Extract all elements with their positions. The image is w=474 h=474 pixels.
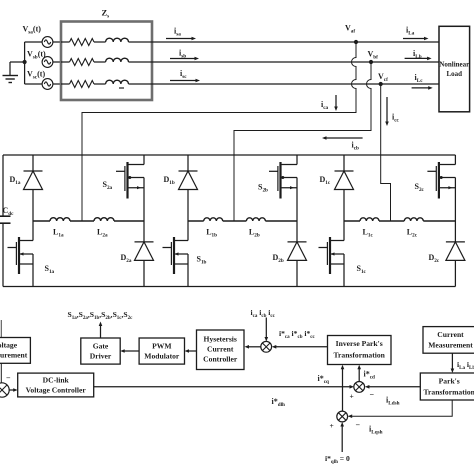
svg-text:Transformation: Transformation bbox=[424, 388, 474, 397]
transistor S_1a bbox=[32, 221, 34, 241]
transistor S_2c bbox=[454, 155, 456, 165]
source V_sa(t) bbox=[25, 41, 42, 43]
svg-text:ica: ica bbox=[321, 100, 329, 111]
svg-text:S2c: S2c bbox=[415, 182, 425, 193]
wire parks d output to summer bbox=[368, 386, 420, 388]
wire phase b bus bbox=[152, 61, 439, 63]
svg-text:L2b: L2b bbox=[249, 228, 260, 239]
inductor L_1a bbox=[33, 220, 50, 222]
svg-text:Measurement: Measurement bbox=[428, 341, 473, 350]
wire hysteresis to PWM bbox=[188, 350, 197, 352]
svg-text:Vaf: Vaf bbox=[345, 24, 355, 35]
inductor L_1b bbox=[188, 220, 204, 222]
svg-text:Park's: Park's bbox=[439, 377, 460, 386]
wire DC bottom rail bbox=[3, 286, 455, 288]
svg-text:L1c: L1c bbox=[363, 228, 374, 239]
resistor Zs phase b bbox=[70, 59, 95, 66]
svg-text:i*cd: i*cd bbox=[364, 370, 376, 381]
summer q-axis reference bbox=[337, 411, 348, 422]
current measurement block bbox=[423, 327, 474, 354]
wire source common vertical bbox=[24, 42, 26, 84]
svg-text:Vsc(t): Vsc(t) bbox=[27, 70, 45, 81]
svg-text:Current: Current bbox=[437, 330, 464, 339]
summer d-axis reference bbox=[354, 382, 365, 393]
svg-text:iLqsh: iLqsh bbox=[369, 425, 383, 436]
wire q reference zero input bbox=[341, 426, 343, 453]
svg-text:ica icb icc: ica icb icc bbox=[251, 308, 276, 319]
wire phase c injection bbox=[381, 84, 391, 221]
voltage measurement block bbox=[0, 338, 30, 364]
svg-text:isb: isb bbox=[179, 49, 186, 60]
inductor Zs phase a bbox=[94, 41, 106, 43]
svg-text:D2b: D2b bbox=[273, 253, 284, 264]
transistor S_2a bbox=[143, 155, 145, 165]
diode D_2a bbox=[143, 221, 145, 242]
svg-text:Current: Current bbox=[207, 345, 234, 354]
svg-text:i*cq: i*cq bbox=[318, 374, 330, 385]
summer current error bbox=[261, 341, 272, 352]
svg-text:iLa: iLa bbox=[406, 26, 415, 37]
svg-text:D1c: D1c bbox=[320, 175, 331, 186]
svg-text:−: − bbox=[370, 390, 375, 399]
inductor L_1c bbox=[344, 220, 360, 222]
polarity mark under Zs row c bbox=[119, 87, 124, 89]
svg-text:Hysetersis: Hysetersis bbox=[204, 335, 237, 344]
svg-text:L1a: L1a bbox=[53, 228, 64, 239]
diode D_1b bbox=[187, 155, 189, 171]
node common source neutral bbox=[23, 60, 27, 64]
wire measured currents to summer bbox=[265, 318, 267, 339]
svg-text:S1c: S1c bbox=[357, 264, 367, 275]
svg-text:−: − bbox=[6, 374, 11, 383]
source V_sb(t) bbox=[42, 57, 53, 68]
wire DC-link controller output i*_dlh bbox=[94, 386, 351, 388]
svg-text:Voltage: Voltage bbox=[0, 341, 18, 350]
svg-text:icc: icc bbox=[392, 113, 400, 124]
wire summer to hysteresis controller bbox=[248, 346, 261, 348]
ground bbox=[10, 61, 25, 63]
svg-text:S1a,S2a,S1b,S2b,S1c,S2c: S1a,S2a,S1b,S2b,S1c,S2c bbox=[68, 310, 134, 321]
wire q summer to inverse park i*_cq bbox=[342, 368, 344, 411]
svg-text:S1a: S1a bbox=[45, 264, 55, 275]
svg-text:Vsa(t): Vsa(t) bbox=[23, 25, 42, 36]
wire Zs row b left bbox=[61, 61, 70, 63]
svg-text:D2a: D2a bbox=[121, 253, 132, 264]
svg-text:PWM: PWM bbox=[152, 342, 171, 351]
wire summer to DC-link controller bbox=[9, 389, 14, 391]
svg-text:Gate: Gate bbox=[93, 342, 109, 351]
svg-text:isc: isc bbox=[180, 69, 187, 80]
svg-text:S1b: S1b bbox=[197, 255, 207, 266]
diode D_2b bbox=[296, 221, 298, 242]
svg-text:L2c: L2c bbox=[407, 228, 418, 239]
svg-text:Driver: Driver bbox=[90, 352, 112, 361]
svg-text:Modulator: Modulator bbox=[144, 352, 180, 361]
svg-text:icb: icb bbox=[352, 141, 360, 152]
wire phase a injection with hops bbox=[82, 42, 356, 221]
svg-text:−: − bbox=[356, 421, 361, 430]
svg-text:Voltage Controller: Voltage Controller bbox=[26, 386, 87, 395]
wire voltage measurement to summer bbox=[0, 363, 2, 383]
wire Zs row c left bbox=[61, 83, 70, 85]
svg-text:Nonlinear: Nonlinear bbox=[439, 61, 469, 69]
source V_sc(t) bbox=[25, 83, 42, 85]
PWM modulator block bbox=[139, 338, 184, 364]
wire DC left rail bbox=[2, 155, 4, 216]
node V_bf bbox=[369, 60, 373, 64]
parks transformation block bbox=[420, 373, 474, 400]
node V_af bbox=[354, 40, 358, 44]
diode D_1c bbox=[343, 155, 345, 171]
summer DC-link voltage error bbox=[0, 383, 9, 397]
svg-text:Controller: Controller bbox=[203, 355, 238, 364]
resistor Zs phase a bbox=[70, 39, 95, 46]
svg-text:DC-link: DC-link bbox=[43, 376, 70, 385]
inductor L_2a bbox=[82, 220, 94, 222]
wire DC top rail bbox=[3, 154, 455, 156]
svg-text:D1a: D1a bbox=[10, 175, 21, 186]
svg-text:i*ca i*cb i*cc: i*ca i*cb i*cc bbox=[279, 329, 316, 340]
transistor S_2b bbox=[296, 155, 298, 165]
wire d summer to inverse park i*_cd bbox=[358, 368, 360, 382]
wire phase a bus bbox=[152, 41, 439, 43]
gate driver block bbox=[81, 338, 120, 364]
svg-text:i*dlh: i*dlh bbox=[272, 397, 286, 408]
svg-text:isa: isa bbox=[174, 27, 181, 38]
inductor Zs phase b bbox=[94, 61, 106, 63]
svg-text:Measurement: Measurement bbox=[0, 351, 28, 360]
wire inverse park output to summer bbox=[275, 346, 328, 348]
hysteresis current controller block bbox=[197, 330, 245, 370]
wire Zs row a left bbox=[61, 41, 70, 43]
wire phase b injection with hop bbox=[234, 62, 371, 221]
resistor Zs phase c bbox=[70, 81, 95, 88]
svg-text:Transformation: Transformation bbox=[334, 351, 386, 360]
wire PWM to gate driver bbox=[124, 350, 139, 352]
inductor Zs phase c bbox=[94, 83, 106, 85]
svg-text:Vcf: Vcf bbox=[378, 72, 388, 83]
svg-text:S2b: S2b bbox=[258, 183, 268, 194]
svg-text:Zs: Zs bbox=[102, 8, 110, 20]
DC-link voltage controller block bbox=[18, 373, 94, 397]
svg-text:+: + bbox=[350, 392, 354, 401]
diode D_1a bbox=[32, 155, 34, 171]
svg-text:Inverse Park's: Inverse Park's bbox=[336, 339, 383, 348]
svg-text:S2a: S2a bbox=[103, 180, 113, 191]
inductor L_2c bbox=[391, 220, 405, 222]
diode D_2c bbox=[454, 221, 456, 242]
svg-text:iLa iLb: iLa iLb bbox=[457, 360, 474, 371]
transistor S_1b bbox=[187, 221, 189, 241]
svg-text:Vbf: Vbf bbox=[368, 50, 379, 61]
inverse park transformation block bbox=[328, 336, 392, 365]
wire phase c bus bbox=[152, 83, 439, 85]
source impedance box Z_s bbox=[61, 22, 152, 101]
node V_cf bbox=[379, 82, 383, 86]
svg-text:iLc: iLc bbox=[415, 73, 424, 84]
svg-text:D1b: D1b bbox=[164, 175, 175, 186]
svg-text:i*qlh = 0: i*qlh = 0 bbox=[325, 454, 350, 465]
svg-text:Load: Load bbox=[447, 70, 463, 78]
capacitor C_dc bbox=[0, 215, 11, 217]
transistor S_1c bbox=[343, 221, 345, 241]
svg-text:L1b: L1b bbox=[206, 228, 217, 239]
nonlinear load block bbox=[439, 26, 470, 112]
wire DC-link sense upper bbox=[0, 320, 2, 338]
inductor L_2b bbox=[234, 220, 246, 222]
wire current measurement to parks bbox=[451, 353, 453, 369]
wire parks q output to q summer bbox=[351, 400, 452, 416]
svg-text:Cdc: Cdc bbox=[3, 206, 15, 217]
svg-text:L2a: L2a bbox=[97, 228, 108, 239]
svg-text:+: + bbox=[330, 421, 334, 430]
svg-text:D2c: D2c bbox=[429, 253, 440, 264]
wire gate driver output arrow bbox=[100, 326, 102, 339]
svg-text:iLdsh: iLdsh bbox=[386, 396, 400, 407]
